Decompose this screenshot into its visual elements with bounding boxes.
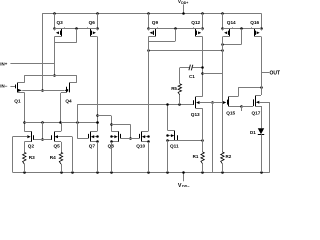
svg-text:Q17: Q17 xyxy=(252,110,261,115)
svg-text:DD+: DD+ xyxy=(181,1,188,5)
svg-text:Q11: Q11 xyxy=(170,144,179,149)
svg-text:Q7: Q7 xyxy=(89,144,96,149)
svg-text:Q12: Q12 xyxy=(191,20,200,25)
svg-text:R4: R4 xyxy=(50,155,56,160)
svg-text:Q1: Q1 xyxy=(14,98,21,103)
svg-text:Q6: Q6 xyxy=(89,20,96,25)
svg-text:Q9: Q9 xyxy=(152,20,159,25)
svg-text:Q14: Q14 xyxy=(227,20,236,25)
svg-text:Q16: Q16 xyxy=(250,20,259,25)
svg-text:R5: R5 xyxy=(171,86,177,91)
svg-text:Q4: Q4 xyxy=(65,98,72,103)
svg-text:OUT: OUT xyxy=(270,71,281,77)
svg-text:Q5: Q5 xyxy=(54,144,61,149)
svg-text:DD−: DD− xyxy=(182,185,189,187)
svg-text:Q2: Q2 xyxy=(28,144,35,149)
svg-text:C1: C1 xyxy=(189,74,195,79)
svg-text:R2: R2 xyxy=(226,154,232,159)
svg-text:R1: R1 xyxy=(193,154,199,159)
svg-text:IN−: IN− xyxy=(0,84,7,89)
svg-text:Q13: Q13 xyxy=(191,112,200,117)
svg-text:Q15: Q15 xyxy=(226,110,235,115)
svg-text:Q8: Q8 xyxy=(108,144,115,149)
svg-text:IN+: IN+ xyxy=(0,61,7,66)
svg-text:R3: R3 xyxy=(29,155,35,160)
svg-text:D1: D1 xyxy=(250,130,256,135)
svg-text:Q10: Q10 xyxy=(136,144,145,149)
svg-text:Q3: Q3 xyxy=(57,20,64,25)
